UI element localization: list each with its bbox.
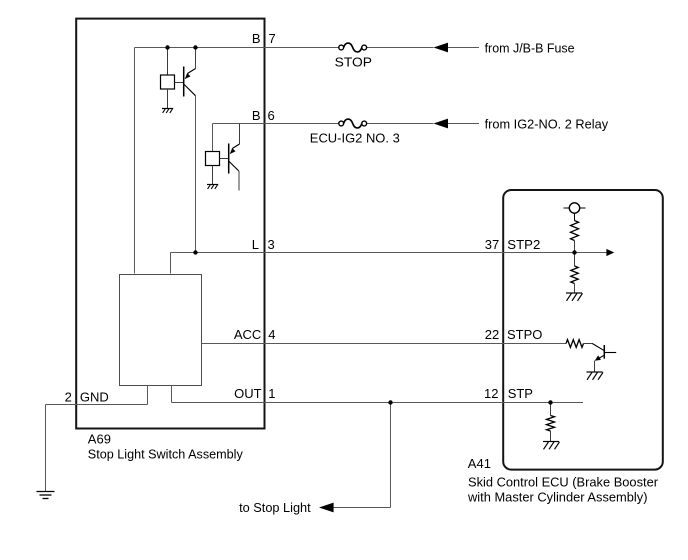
svg-text:STOP: STOP <box>335 55 372 70</box>
box A41 Skid Control ECU <box>503 190 663 470</box>
svg-text:Stop Light Switch Assembly: Stop Light Switch Assembly <box>88 447 243 462</box>
wire to Stop Light vertical <box>390 403 392 508</box>
svg-text:STP: STP <box>508 386 533 401</box>
svg-text:B: B <box>252 31 261 46</box>
svg-text:from IG2-NO. 2 Relay: from IG2-NO. 2 Relay <box>485 116 609 131</box>
svg-text:A41: A41 <box>468 456 491 471</box>
svg-text:from J/B-B Fuse: from J/B-B Fuse <box>485 40 575 55</box>
ground (below R1) <box>162 109 173 113</box>
switch block inside A69 <box>120 275 202 386</box>
earth ground (GND) <box>37 492 55 499</box>
svg-text:22: 22 <box>485 327 499 342</box>
svg-text:Skid Control ECU (Brake Booste: Skid Control ECU (Brake Booster <box>468 474 659 489</box>
svg-text:4: 4 <box>268 327 275 342</box>
svg-text:37: 37 <box>485 237 499 252</box>
junction dot OUT/to Stop Light <box>388 400 392 404</box>
junction dot STP node <box>548 400 552 404</box>
svg-text:12: 12 <box>484 386 498 401</box>
ground (below R2) <box>207 185 218 189</box>
wire arrow to label from J/B-B Fuse <box>448 47 480 49</box>
svg-text:to Stop Light: to Stop Light <box>239 500 311 515</box>
wire GND vertical to earth ground <box>45 405 47 492</box>
wire zigzag to STP2 node <box>574 241 576 253</box>
resistor R2 (base box of Q2) <box>206 152 220 185</box>
wire GND stub from switch block <box>147 386 149 405</box>
power symbol (circle) STP2 pull-up <box>564 203 586 221</box>
svg-text:A69: A69 <box>88 431 111 446</box>
fuse STOP <box>339 43 367 52</box>
box A69 Stop Light Switch Assembly <box>76 19 264 429</box>
wire to ground STP2 <box>574 284 576 294</box>
resistor R1 (base box of Q1) <box>161 48 175 109</box>
resistor (zigzag) STP2 upper <box>571 221 579 241</box>
svg-text:ACC: ACC <box>234 327 261 342</box>
wire B7 net vertical to switch block <box>134 48 136 274</box>
wire GND horizontal <box>46 404 148 406</box>
svg-text:7: 7 <box>269 31 276 46</box>
svg-text:STPO: STPO <box>507 327 542 342</box>
wire to Stop Light horizontal <box>334 507 391 509</box>
junction dot STP2 node <box>572 250 576 254</box>
wire fuse ECU-IG2 to arrow <box>367 123 434 125</box>
svg-text:L: L <box>252 237 259 252</box>
wire L3 vertical to switch block <box>170 253 172 274</box>
arrow to Stop Light <box>319 503 334 513</box>
svg-text:STP2: STP2 <box>507 237 540 252</box>
svg-text:6: 6 <box>268 108 275 123</box>
svg-text:2: 2 <box>65 390 72 405</box>
ground (STP2 divider) <box>566 293 583 301</box>
svg-text:with Master Cylinder Assembly): with Master Cylinder Assembly) <box>467 489 647 504</box>
svg-text:OUT: OUT <box>234 386 262 401</box>
wire L3/STP2 net horizontal <box>171 252 608 254</box>
fuse ECU-IG2 NO. 3 <box>339 119 367 128</box>
wire B7 net horizontal (pin B7 to fuse STOP) <box>135 47 339 49</box>
wire ACC/STPO net horizontal <box>202 343 567 345</box>
wire B6 net horizontal (pin B6 to fuse ECU-IG2) <box>213 123 339 125</box>
junction dot B7/R1 <box>165 45 169 49</box>
wire STP node down <box>550 403 552 416</box>
svg-text:3: 3 <box>268 237 275 252</box>
wire STP2 node down <box>574 253 576 267</box>
wire arrow to label from IG2-NO. 2 Relay <box>448 123 480 125</box>
svg-text:GND: GND <box>80 390 109 405</box>
wire to ground STP <box>550 431 552 442</box>
resistor (zigzag) STP <box>547 416 555 432</box>
svg-text:1: 1 <box>268 386 275 401</box>
svg-text:ECU-IG2 NO. 3: ECU-IG2 NO. 3 <box>310 130 400 145</box>
transistor Q1 <box>175 48 196 97</box>
resistor (zigzag) STPO horizontal <box>566 340 584 348</box>
ground (Q3 emitter) <box>587 372 604 380</box>
svg-text:B: B <box>252 108 261 123</box>
junction dot L3/Q1 collector <box>193 250 197 254</box>
junction dot B7/Q1 emitter <box>193 45 197 49</box>
transistor Q2 <box>220 124 240 191</box>
wire OUT stub from switch block <box>171 386 173 403</box>
arrow from IG2-NO. 2 Relay <box>434 119 449 129</box>
arrow from J/B-B Fuse <box>434 43 449 53</box>
wire OUT/STP net horizontal <box>172 402 584 404</box>
wire Q1 collector vertical to L3 <box>195 96 197 253</box>
transistor Q3 (STPO) <box>584 344 617 373</box>
resistor (zigzag) STP2 lower <box>571 266 578 284</box>
wire B6 vertical to resistor R2 <box>212 124 214 152</box>
ground (STP) <box>543 442 560 450</box>
wire fuse STOP to arrow <box>367 47 434 49</box>
arrow STP2 internal <box>606 249 614 256</box>
